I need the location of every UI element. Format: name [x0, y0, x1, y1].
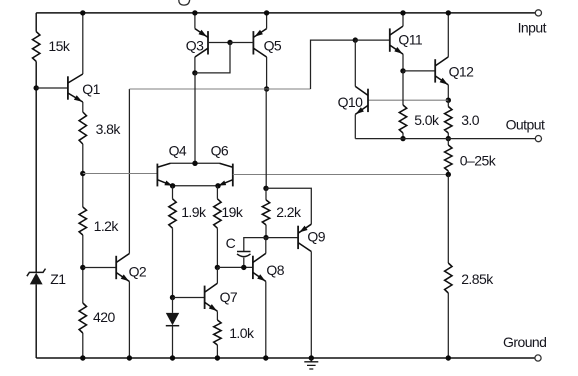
wire: 0-25k top lead [447, 139, 449, 145]
wire: Q6 base feedback line [233, 174, 448, 176]
svg-text:Z1: Z1 [50, 271, 66, 287]
wire: Q3 collector down [194, 57, 196, 73]
wire: Q7 collector node to Q8 base [217, 266, 253, 268]
node: Q7 base junction [170, 295, 175, 300]
wire: Q11 collector to top rail [402, 13, 404, 26]
wire: Q8 emitter to ground rail [265, 281, 267, 358]
wire: output rail [355, 138, 535, 140]
wire: Q5 emitter from top rail [266, 13, 268, 29]
wire: bottom ground rail [36, 357, 535, 359]
node: ground rail / Q9 collector [309, 355, 314, 360]
resistor 19k [214, 199, 221, 228]
resistor 2.85k [445, 263, 452, 293]
wire: Q3 collector to Q4/Q6 collectors [194, 73, 196, 163]
node: Q12 emitter / 3.0 top / Q10 base [446, 98, 451, 103]
wire: Q10 emitter to output rail [354, 114, 356, 138]
wire: 2.2k top lead [265, 188, 267, 200]
diode D1 [166, 313, 179, 325]
wire: Q12 base [403, 70, 435, 72]
wire: 1.0k to ground rail [216, 345, 218, 358]
ground terminal [535, 355, 541, 361]
node: mirror base node [227, 40, 232, 45]
svg-text:Ground: Ground [503, 334, 546, 350]
wire: Q7 base [173, 297, 205, 299]
transistor Q1 [67, 76, 69, 99]
resistor 0-25k [445, 145, 452, 171]
node: Q11 base / Q10 collector junction [353, 37, 358, 42]
svg-text:Q3: Q3 [186, 37, 204, 53]
wire: Q12 emitter to sense node [447, 85, 449, 100]
wire: Q3 base to mirror node [208, 42, 230, 44]
svg-text:Output: Output [506, 117, 545, 133]
wire: Q3 diode connection [195, 43, 230, 73]
wire: capacitor top lead [244, 238, 266, 251]
wire: left rail (15k / Z1 branch) [35, 13, 37, 358]
wire: diode to ground rail [172, 326, 174, 358]
node: compensation node (Q8 collector / Q9 base) [263, 235, 268, 240]
resistor 3.8k [79, 112, 86, 144]
resistor 1.0k [214, 320, 221, 345]
node: feedback node [446, 172, 451, 177]
transistor Q11 [389, 28, 391, 51]
wire: Q1 base [36, 87, 68, 89]
node: Q7 collector junction [215, 265, 220, 270]
resistor 420 [79, 303, 86, 333]
node: ground rail / 2.85k [446, 355, 451, 360]
wire: Q11 emitter to Q12 base node [402, 54, 404, 71]
wire: Q7 base node to diode [172, 298, 174, 313]
node: top rail / Q5 emitter [264, 10, 269, 15]
capacitor C [237, 251, 251, 253]
svg-text:Q1: Q1 [82, 81, 100, 97]
wire: 19k to Q7 collector node [216, 228, 218, 267]
wire: 0-25k to feedback node [447, 171, 449, 175]
svg-text:3.8k: 3.8k [96, 121, 122, 137]
svg-text:1.9k: 1.9k [181, 204, 207, 220]
resistor 1.9k [169, 199, 176, 228]
wire: Q6 emitter to 19k [216, 186, 218, 199]
wire: drive rail riser to Q11 base [311, 40, 356, 89]
node: top rail / Q12 collector [446, 10, 451, 15]
wire: Q8 collector to compensation node [265, 238, 267, 254]
wire: 2.2k to compensation node [265, 225, 267, 238]
transistor Q10 [367, 89, 369, 112]
svg-text:Q12: Q12 [449, 63, 475, 79]
resistor 15k [33, 32, 40, 62]
wire: drive rail (Q2/Q5 collectors) [129, 88, 310, 90]
node: Q11 emitter / Q12 base [400, 68, 405, 73]
wire: Q11 base [355, 39, 390, 41]
svg-text:2.2k: 2.2k [276, 204, 302, 220]
output terminal [535, 136, 541, 142]
node: output node [446, 136, 451, 141]
wire: Q5 base to mirror node [230, 42, 253, 44]
ground symbol [304, 358, 318, 369]
wire: Q7 emitter to 1.0k [216, 311, 218, 320]
wire: emitter tie bar [173, 185, 218, 187]
transistor Q5 (pnp) [252, 31, 254, 54]
wire: Q1 collector to top rail [82, 13, 84, 74]
resistor 2.2k [262, 200, 269, 225]
svg-text:Q10: Q10 [338, 94, 364, 110]
svg-text:Q5: Q5 [264, 37, 282, 53]
node: ground rail / 1.0k [215, 355, 220, 360]
svg-text:1.0k: 1.0k [229, 325, 255, 341]
wire: Q5 collector to 2.2k [265, 89, 267, 188]
wire: Q2 collector up to gray rail [128, 89, 130, 254]
wire: Q9 collector to ground [310, 252, 312, 359]
cropped caption letter fragment [179, 0, 190, 5]
wire: Q1 emitter to 3.8k [82, 102, 84, 112]
svg-text:19k: 19k [221, 204, 243, 220]
svg-text:Q7: Q7 [220, 289, 238, 305]
transistor Q2 [115, 256, 117, 279]
wire: Q2 emitter to ground rail [128, 282, 130, 359]
wire: Q4 emitter to 1.9k [172, 186, 174, 199]
wire: 3.0 to output rail [447, 133, 449, 139]
wire: 5.0k to output rail [402, 133, 404, 139]
svg-text:0–25k: 0–25k [460, 153, 497, 169]
transistor Q9 (pnp) [297, 226, 299, 249]
wire: Q10 base sense line [368, 99, 448, 101]
node: ground rail / Q8 emitter [263, 355, 268, 360]
node: ground rail / Q2 emitter [127, 355, 132, 360]
wire: 420 to ground rail [82, 333, 84, 358]
node: capacitor / Q8 base junction [241, 265, 246, 270]
svg-text:Q4: Q4 [169, 143, 187, 159]
wire: Q5 collector down to gray rail [266, 57, 268, 89]
node: Q1 base junction [34, 85, 39, 90]
wire: Q9 base [266, 237, 298, 239]
wire: 3.8k to 1.2k [82, 144, 84, 207]
wire: Q3 emitter from top rail [194, 13, 196, 29]
svg-text:2.85k: 2.85k [461, 271, 494, 287]
svg-text:C: C [226, 235, 236, 251]
node: Q2 base junction [80, 265, 85, 270]
node: top rail / Q3 emitter [192, 10, 197, 15]
transistor Q12 [434, 59, 436, 82]
wire: Q7 collector to 19k node [216, 267, 218, 283]
node: ground rail / diode [170, 355, 175, 360]
node: top rail / Q11 collector [400, 10, 405, 15]
wire: feedback node to 2.85k [447, 175, 449, 264]
node: 2.2k top / Q9 emitter junction [263, 186, 268, 191]
svg-text:Q9: Q9 [307, 229, 325, 245]
transistor Q3 (pnp) [207, 31, 209, 54]
resistor 3.0 [445, 107, 452, 134]
wire: 2.85k to ground rail [447, 293, 449, 358]
wire: Q4/Q6 common collector bar [171, 162, 220, 164]
wire: Q12 collector to top rail [447, 13, 449, 57]
node: top rail / Q1 collector [80, 10, 85, 15]
wire: 1.9k to Q7 base node [172, 228, 174, 297]
svg-text:5.0k: 5.0k [414, 112, 440, 128]
wire: capacitor bottom lead [243, 258, 245, 268]
svg-text:1.2k: 1.2k [94, 218, 120, 234]
zener Z1 [27, 269, 46, 277]
svg-text:Q8: Q8 [266, 262, 284, 278]
transistor Q6 [232, 164, 234, 187]
wire: Q2 base [83, 267, 116, 269]
wire: 1.2k to 420 [82, 235, 84, 303]
svg-text:Q11: Q11 [398, 31, 423, 47]
wire: Q10 collector up [354, 40, 356, 86]
wire: Q11 emitter node to 5.0k [402, 71, 404, 105]
node: output rail / 5.0k [400, 136, 405, 141]
transistor Q8 [252, 256, 254, 279]
wire: top supply rail [36, 12, 535, 14]
resistor 5.0k [399, 105, 406, 133]
node: Q6 emitter [215, 183, 220, 188]
node: reference divider tap (Q4 base line) [80, 171, 85, 176]
input terminal [535, 10, 541, 16]
node: ground rail / 420 [80, 355, 85, 360]
transistor Q4 [156, 164, 158, 187]
svg-text:3.0: 3.0 [461, 112, 480, 128]
wire: 3.0 top lead [447, 100, 449, 106]
svg-text:420: 420 [93, 309, 115, 325]
node: diff pair collector node [192, 161, 197, 166]
wire: Q9 emitter branch [266, 188, 311, 224]
node: Q3 collector junction [192, 70, 197, 75]
node: gray rail / Q5 collector [264, 86, 269, 91]
resistor 1.2k [79, 207, 86, 235]
svg-text:Q6: Q6 [211, 143, 229, 159]
svg-text:Input: Input [518, 20, 547, 36]
svg-text:15k: 15k [48, 38, 70, 54]
node: Q4 emitter [170, 183, 175, 188]
svg-text:Q2: Q2 [129, 264, 147, 280]
wire: Q4 base line from divider [83, 173, 158, 175]
transistor Q7 [204, 286, 206, 309]
